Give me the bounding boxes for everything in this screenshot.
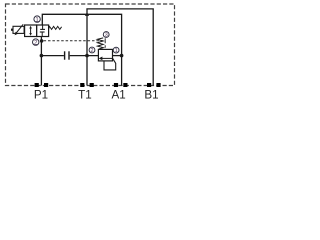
circled port label 2 of RV1: [89, 47, 95, 53]
RV1 adjustment spring: [97, 38, 103, 49]
solenoid valve V1 : left position square (flow pass): [25, 25, 37, 37]
svg-text:T1: T1: [78, 88, 92, 101]
blocked port tee bottom: [41, 32, 43, 37]
junction node main line on P1 riser: [40, 54, 44, 58]
pilot line (dashed) from P1 riser to reducing valve spring: [44, 41, 106, 49]
RV1 drain loop: [104, 58, 116, 70]
junction node T1 riser / main line: [85, 54, 89, 58]
port A1 marker squares: [114, 83, 118, 87]
flow path double arrow in left square: [30, 27, 32, 34]
wire valve port1 rail to A1: [42, 14, 121, 55]
wire T1 riser: [86, 14, 88, 86]
svg-text:A1: A1: [112, 88, 126, 101]
svg-text:3: 3: [105, 33, 108, 39]
wire A1 riser lower: [121, 56, 123, 86]
wire main P line left of orifice: [41, 55, 64, 57]
proportional solenoid actuator box: [13, 26, 24, 33]
junction node pilot tap on P1 riser: [40, 39, 44, 43]
port P1 marker squares: [35, 83, 39, 87]
orifice plug plate 1: [64, 51, 66, 59]
solenoid lead stub: [11, 29, 13, 31]
pressure reducing valve RV1 : body: [98, 49, 112, 61]
wire B1 rail: [87, 9, 153, 86]
wire P1 riser: [40, 37, 42, 86]
wire main P line right of orifice to reducing valve: [70, 55, 99, 57]
junction node A1 riser / reducing valve: [120, 54, 124, 58]
svg-text:P1: P1: [34, 88, 48, 101]
port B1 marker squares: [147, 83, 151, 87]
orifice plug plate 2: [68, 51, 70, 59]
flow arrow inside RV1 (points left): [102, 57, 113, 59]
port T1 marker squares: [80, 83, 84, 87]
enclosure (manifold boundary, dashed): [6, 4, 175, 86]
solenoid valve V1 : right position square (blocked): [37, 25, 49, 37]
return spring of V1: [49, 26, 62, 29]
solenoid diagonal arrow: [16, 24, 23, 33]
circled port label 3 of RV1: [103, 32, 109, 38]
svg-text:B1: B1: [144, 88, 158, 101]
circled port label 2 of V1: [33, 39, 39, 45]
flow arrowhead at top of T1 riser: [85, 12, 89, 16]
circled port label 1 of RV1: [113, 47, 119, 53]
blocked port tee top: [42, 25, 44, 29]
circled port label 1 of V1: [34, 16, 40, 22]
svg-text:1: 1: [115, 48, 118, 54]
svg-text:2: 2: [91, 48, 94, 54]
pilot branch (dashed) up toward port 3 label: [104, 38, 106, 41]
wire reducing valve outlet to A1 riser: [112, 55, 121, 57]
